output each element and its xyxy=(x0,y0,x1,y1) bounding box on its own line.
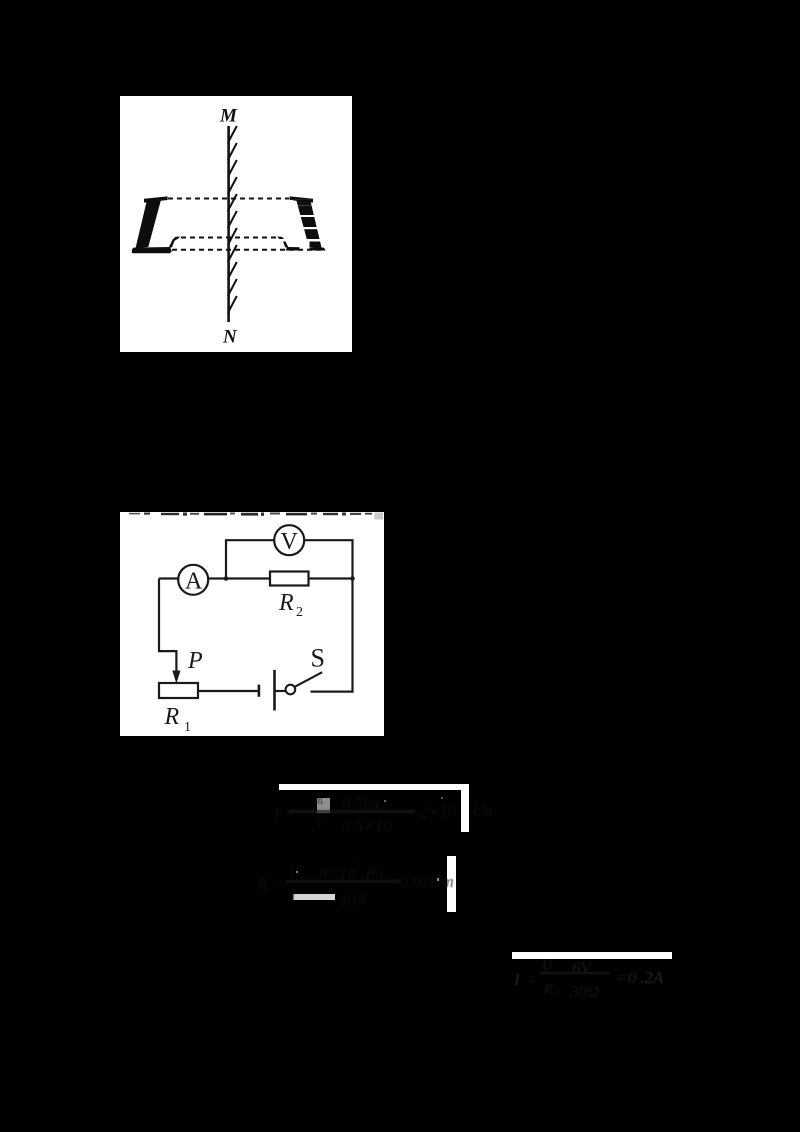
svg-text:V: V xyxy=(281,529,299,555)
image of L (dashed, mirrored) xyxy=(277,196,325,253)
faint equation f2 xyxy=(255,862,455,906)
wire R1 to battery xyxy=(198,690,258,692)
ammeter A1 xyxy=(178,565,208,595)
voltmeter V1 xyxy=(274,525,304,555)
gray corner patch xyxy=(375,513,384,520)
battery plate short xyxy=(258,685,261,697)
svg-text:1: 1 xyxy=(184,720,191,735)
dashed line middle xyxy=(181,237,277,239)
wire node left up to voltmeter xyxy=(226,540,274,578)
dashed line top xyxy=(168,198,289,200)
white bar right f1 xyxy=(461,784,469,832)
svg-text:A: A xyxy=(185,569,203,595)
svg-text:2: 2 xyxy=(296,605,303,620)
faint equation f1 xyxy=(272,792,512,836)
battery plate long xyxy=(273,670,276,711)
wire middle left xyxy=(159,577,178,579)
gray patch f1 xyxy=(317,798,330,813)
svg-text:R: R xyxy=(164,704,180,730)
speck f2 a xyxy=(296,871,298,873)
svg-text:M: M xyxy=(219,105,238,126)
mirror diagram panel xyxy=(120,96,352,352)
speck f1 a xyxy=(322,799,325,801)
wire switch to right xyxy=(311,579,353,692)
wire R2 to node right xyxy=(309,577,353,579)
rheostat R1 xyxy=(159,683,198,698)
svg-text:S: S xyxy=(311,644,325,673)
speck f1 b xyxy=(384,800,386,802)
object L xyxy=(132,196,180,253)
resistor R2 xyxy=(270,572,309,586)
slider arrow P xyxy=(172,671,180,684)
speck f2 b xyxy=(437,878,439,881)
switch lever xyxy=(295,672,322,687)
wire battery to switch xyxy=(276,690,287,692)
svg-text:R: R xyxy=(278,590,294,616)
circuit diagram panel xyxy=(120,512,384,736)
white bar top f3 xyxy=(512,952,672,959)
node left xyxy=(224,576,229,581)
faint equation f3 xyxy=(508,962,688,1002)
mirror line MN xyxy=(227,126,230,322)
white bar right f2 xyxy=(447,856,456,912)
switch pivot xyxy=(286,685,296,695)
svg-text:P: P xyxy=(187,648,203,674)
wire left down xyxy=(159,579,176,675)
node right xyxy=(350,576,355,581)
mirror hatching xyxy=(228,126,237,313)
light gray bar f2 xyxy=(293,894,335,900)
white bar top f1 xyxy=(279,784,469,790)
dashed line bottom xyxy=(172,249,325,251)
svg-text:N: N xyxy=(222,327,238,348)
speck f1 c xyxy=(441,797,443,799)
cropped text smudge xyxy=(129,513,372,516)
wire voltmeter to right corner down xyxy=(304,540,352,578)
wire A to node xyxy=(208,577,270,579)
